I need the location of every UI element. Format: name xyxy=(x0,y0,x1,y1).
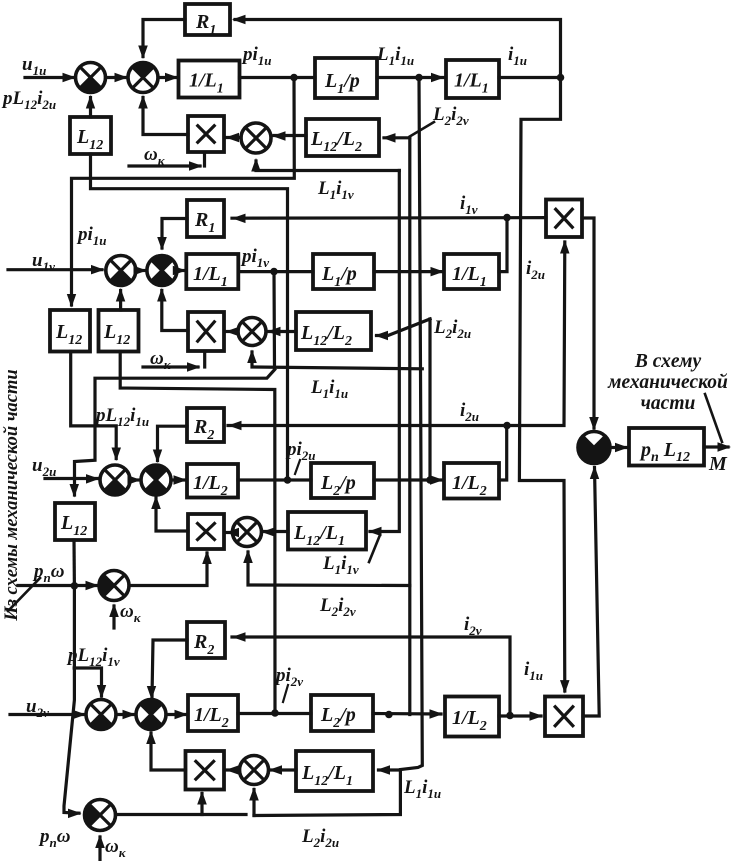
svg-text:части: части xyxy=(641,393,696,414)
wire pn3 out to Xr3 xyxy=(129,553,207,586)
block R2 row3 xyxy=(187,408,224,442)
wire pn4 stub to Xr4 xyxy=(200,794,203,815)
node pi2u xyxy=(284,476,292,484)
multiplier junction m3 row3 xyxy=(233,518,262,547)
block X2 multiplier xyxy=(545,697,583,737)
wire i2u up xyxy=(499,426,507,481)
wire pi1v down xyxy=(272,272,276,368)
block X multiplier row4 xyxy=(186,751,225,790)
wire L1/p out L1i1u xyxy=(377,76,443,79)
wire L1i1u vertical xyxy=(254,78,422,816)
wire c2r1 to 1/L1 xyxy=(158,76,177,79)
wire u2v input xyxy=(10,713,84,716)
block L1/p row1 xyxy=(315,58,377,98)
wire X1 bottom feed i2u xyxy=(507,242,565,426)
wire L1i1v label pointer xyxy=(369,535,380,562)
block L12/L2 row2 xyxy=(296,312,371,350)
wire R2r3 feed i2u bus xyxy=(228,424,507,427)
wire L1/p r2 out xyxy=(374,270,442,273)
wire pL12i1u chain xyxy=(71,352,117,459)
block X multiplier row2 xyxy=(188,312,224,351)
block X1 multiplier xyxy=(546,200,582,238)
wire V shemu pointer xyxy=(705,394,722,442)
summing junction c2 row4 xyxy=(136,700,166,730)
multiplier junction m1 row1 xyxy=(241,123,271,153)
wire pnw input xyxy=(18,584,97,587)
wire X1 out to M xyxy=(582,218,594,428)
wire bus B pi2u xyxy=(91,154,288,478)
node i2v junction xyxy=(506,712,514,720)
block L12 #1 row2 xyxy=(50,310,90,352)
block 1/L1 row2 xyxy=(186,254,238,289)
summing junction c1 row2 xyxy=(106,256,136,286)
wire L2i2v vertical xyxy=(408,138,411,715)
block L12/L1 row4 xyxy=(296,751,373,791)
wire X2 out to M bottom xyxy=(583,468,599,717)
wire m1 bottom feed L1i1v xyxy=(256,161,399,171)
block 1/L2b row4 xyxy=(445,697,499,737)
node i2u junction xyxy=(503,422,511,430)
block 1/L2b row3 xyxy=(444,463,499,499)
wire m4 bottom arrow xyxy=(252,790,255,816)
node i1v junction xyxy=(503,214,511,222)
wire i1u feedback down xyxy=(519,78,564,692)
block L12 #2 row2 xyxy=(99,310,139,352)
wire M out xyxy=(610,446,626,449)
wire 1/L1 out pi1u xyxy=(240,76,316,79)
svg-text:Из схемы механической части: Из схемы механической части xyxy=(2,369,22,621)
wire R1r2 out to c2r2 xyxy=(162,219,187,249)
block L1/p row2 xyxy=(313,254,374,289)
wire L12/L2r2 to m2 xyxy=(269,330,296,333)
wire L12r3 out down xyxy=(72,540,76,586)
wire wk row1 xyxy=(129,164,200,167)
wire u2u input xyxy=(45,477,97,480)
wire c1r4 to c2r4 xyxy=(116,713,134,716)
node L1i1u xyxy=(415,74,423,82)
wire L12r1 out up to c1r1 xyxy=(89,98,92,118)
wire c2r3 to 1/L2 xyxy=(171,478,185,481)
summing junction pn4 xyxy=(85,800,116,831)
wire R2r4 out to c2r4 xyxy=(152,640,187,697)
wire Xr4 out to c2r4 bottom xyxy=(151,733,186,770)
node L2i2v tap xyxy=(385,711,393,719)
wire pn4 out xyxy=(116,813,247,816)
wire m3 bottom feed L2i2v xyxy=(248,552,410,586)
block 1/L1b row1 xyxy=(446,60,499,98)
wire wk row2 xyxy=(143,365,198,368)
wire R2r4 feed i2v bus xyxy=(232,637,510,714)
wire m3 to Xr3 xyxy=(227,531,233,534)
wire i1u out xyxy=(499,76,561,79)
wire wk row4 arrow xyxy=(98,837,101,861)
block R1 row2 xyxy=(187,200,224,237)
wire L1i1v feed into L12/L1 row3 xyxy=(370,171,399,532)
block 1/L2 row4 xyxy=(188,695,238,731)
block X multiplier row1 xyxy=(188,116,224,152)
wire c2r2 to 1/L1 row2 xyxy=(177,269,185,272)
wire L2/p r4 out L2i2v xyxy=(373,712,441,716)
wire c1r1 to c2r1 xyxy=(106,76,127,79)
wire wk row3 arrow xyxy=(112,606,115,628)
wire L2i2v arrow into L12/L2 xyxy=(410,122,434,137)
wire pnL12 out M arrow xyxy=(704,445,728,448)
wire Xr3 out to c2r3 bottom xyxy=(156,498,188,531)
block X multiplier row3 xyxy=(188,514,224,549)
multiplier junction m2 row2 xyxy=(238,318,266,346)
wire L12/L2 to m1 xyxy=(274,134,306,137)
wire L2/p r3 out xyxy=(374,478,442,481)
summing junction c1 row4 xyxy=(86,700,116,730)
wire m1 to X row1 xyxy=(227,136,241,139)
block R2 row4 xyxy=(187,622,225,658)
wire pi1v slant chain to L12 row3 xyxy=(75,370,275,496)
wire m4 to Xr4 xyxy=(227,768,240,771)
wire 1/L1r2 out pi1v xyxy=(238,270,313,273)
wire c1r3 to c2r3 xyxy=(130,478,139,481)
wire Iz shemy pointer xyxy=(8,578,40,611)
wire L12/L1r3 to m3 xyxy=(264,530,289,533)
block L2/p row3 xyxy=(311,463,374,498)
multiplier junction m4 row4 xyxy=(240,756,269,785)
wire bus A pi1u to row2 L12 xyxy=(72,78,295,306)
summing junction M xyxy=(578,432,610,464)
summing junction c1 row1 xyxy=(76,63,106,93)
wire X out to c2r1 bottom xyxy=(143,98,188,135)
summing junction c2 row3 xyxy=(141,465,171,495)
wire L1i1u arrow into L12/L1 row4 xyxy=(379,768,401,771)
node pnw tap xyxy=(71,582,79,590)
block L12 row1 xyxy=(70,117,111,154)
wire 1/L2br4 out to X2 xyxy=(499,714,541,717)
svg-text:M: M xyxy=(708,453,728,475)
wire m2 to Xr2 xyxy=(227,330,238,333)
node L2i2u tap xyxy=(426,476,434,484)
wire L2i2u slant into L12/L2 row2 xyxy=(377,319,431,336)
wire L12#2 out up to c1r2 xyxy=(119,291,122,311)
wire c1r2 to c2r2 xyxy=(136,269,146,272)
summing junction c2 row2 xyxy=(147,256,177,286)
block 1/L1 row1 xyxy=(179,61,240,98)
wire Xr2 out to c2r2 bottom xyxy=(162,291,188,331)
block L12/L1 row3 xyxy=(288,512,366,550)
block 1/L1b row2 xyxy=(444,254,499,289)
block pnL12 xyxy=(629,428,704,466)
block L12/L2 row1 xyxy=(306,119,379,156)
wire 1/L2r3 out pi2u xyxy=(238,478,311,481)
wire u1v input xyxy=(8,268,102,271)
svg-text:механической: механической xyxy=(607,372,728,393)
wire R1 out to c2r1 xyxy=(143,20,185,57)
wire m2 bottom feed L1i1u xyxy=(252,352,422,369)
block L12 row3 xyxy=(55,503,95,540)
node pi2v xyxy=(271,709,279,717)
wire c2r4 to 1/L2 row4 xyxy=(166,713,186,716)
wire R2r3 out to c2r3 xyxy=(158,426,188,460)
svg-text:В схему: В схему xyxy=(634,351,702,372)
block L2/p row4 xyxy=(311,695,373,731)
block 1/L2 row3 xyxy=(187,464,238,498)
node i1u xyxy=(557,74,565,82)
wire i1v bus xyxy=(232,216,546,220)
wire 1/L2r4 out xyxy=(238,712,311,715)
wire i1v up xyxy=(499,218,507,272)
summing junction pn3 xyxy=(99,571,129,601)
wire L12/L1r4 to m4 xyxy=(271,768,297,771)
block R1 row1 xyxy=(185,4,230,35)
summing junction c1 row3 xyxy=(100,465,130,495)
summing junction c2 row1 xyxy=(128,63,158,93)
node pi1u xyxy=(290,74,298,82)
wire u1u input xyxy=(25,76,74,79)
wire pnw to row4 chain xyxy=(64,586,79,813)
node pi1v xyxy=(270,268,278,276)
wire i1u up to R1 feed xyxy=(235,20,561,78)
wire pL12i1v branch xyxy=(74,668,101,696)
wire L12#2 bottom chain xyxy=(120,352,275,713)
